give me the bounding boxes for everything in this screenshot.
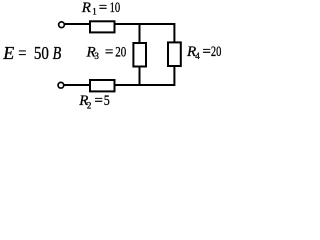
- label E = 50 V: [2, 43, 61, 63]
- svg-text:E: E: [2, 43, 14, 63]
- terminal top: [59, 22, 65, 28]
- resistor R4: [168, 42, 181, 66]
- svg-text:20: 20: [115, 44, 126, 60]
- svg-text:=: =: [18, 43, 26, 63]
- svg-text:=: =: [202, 44, 210, 60]
- svg-text:20: 20: [211, 44, 222, 60]
- svg-text:=: =: [99, 0, 107, 16]
- svg-text:10: 10: [110, 0, 121, 16]
- label R1 = 10: [81, 0, 120, 16]
- svg-text:2: 2: [87, 100, 92, 110]
- svg-text:В: В: [53, 43, 62, 63]
- svg-text:3: 3: [94, 51, 99, 61]
- label R4 = 20: [186, 44, 221, 61]
- wire bottom rail from R2 to corner under R4: [115, 67, 175, 86]
- svg-text:4: 4: [195, 51, 200, 61]
- wire top rail from terminal to R1: [65, 23, 90, 25]
- svg-text:1: 1: [92, 6, 97, 16]
- svg-text:50: 50: [34, 43, 49, 63]
- svg-text:=: =: [105, 44, 113, 60]
- terminal bottom: [58, 82, 64, 88]
- wire top rail from R1 to top-right corner down to R4: [115, 24, 175, 43]
- resistor R2: [90, 80, 115, 91]
- wire R3 bottom lead: [139, 67, 141, 86]
- svg-text:R: R: [81, 0, 91, 16]
- wire bottom rail from terminal to R2: [65, 84, 91, 86]
- label R2 = 5: [78, 93, 109, 110]
- svg-text:5: 5: [104, 93, 110, 109]
- wire R3 top lead: [139, 24, 141, 43]
- svg-text:=: =: [94, 93, 102, 109]
- resistor R3: [133, 43, 146, 67]
- label R3 = 20: [86, 44, 127, 61]
- resistor R1: [90, 21, 115, 32]
